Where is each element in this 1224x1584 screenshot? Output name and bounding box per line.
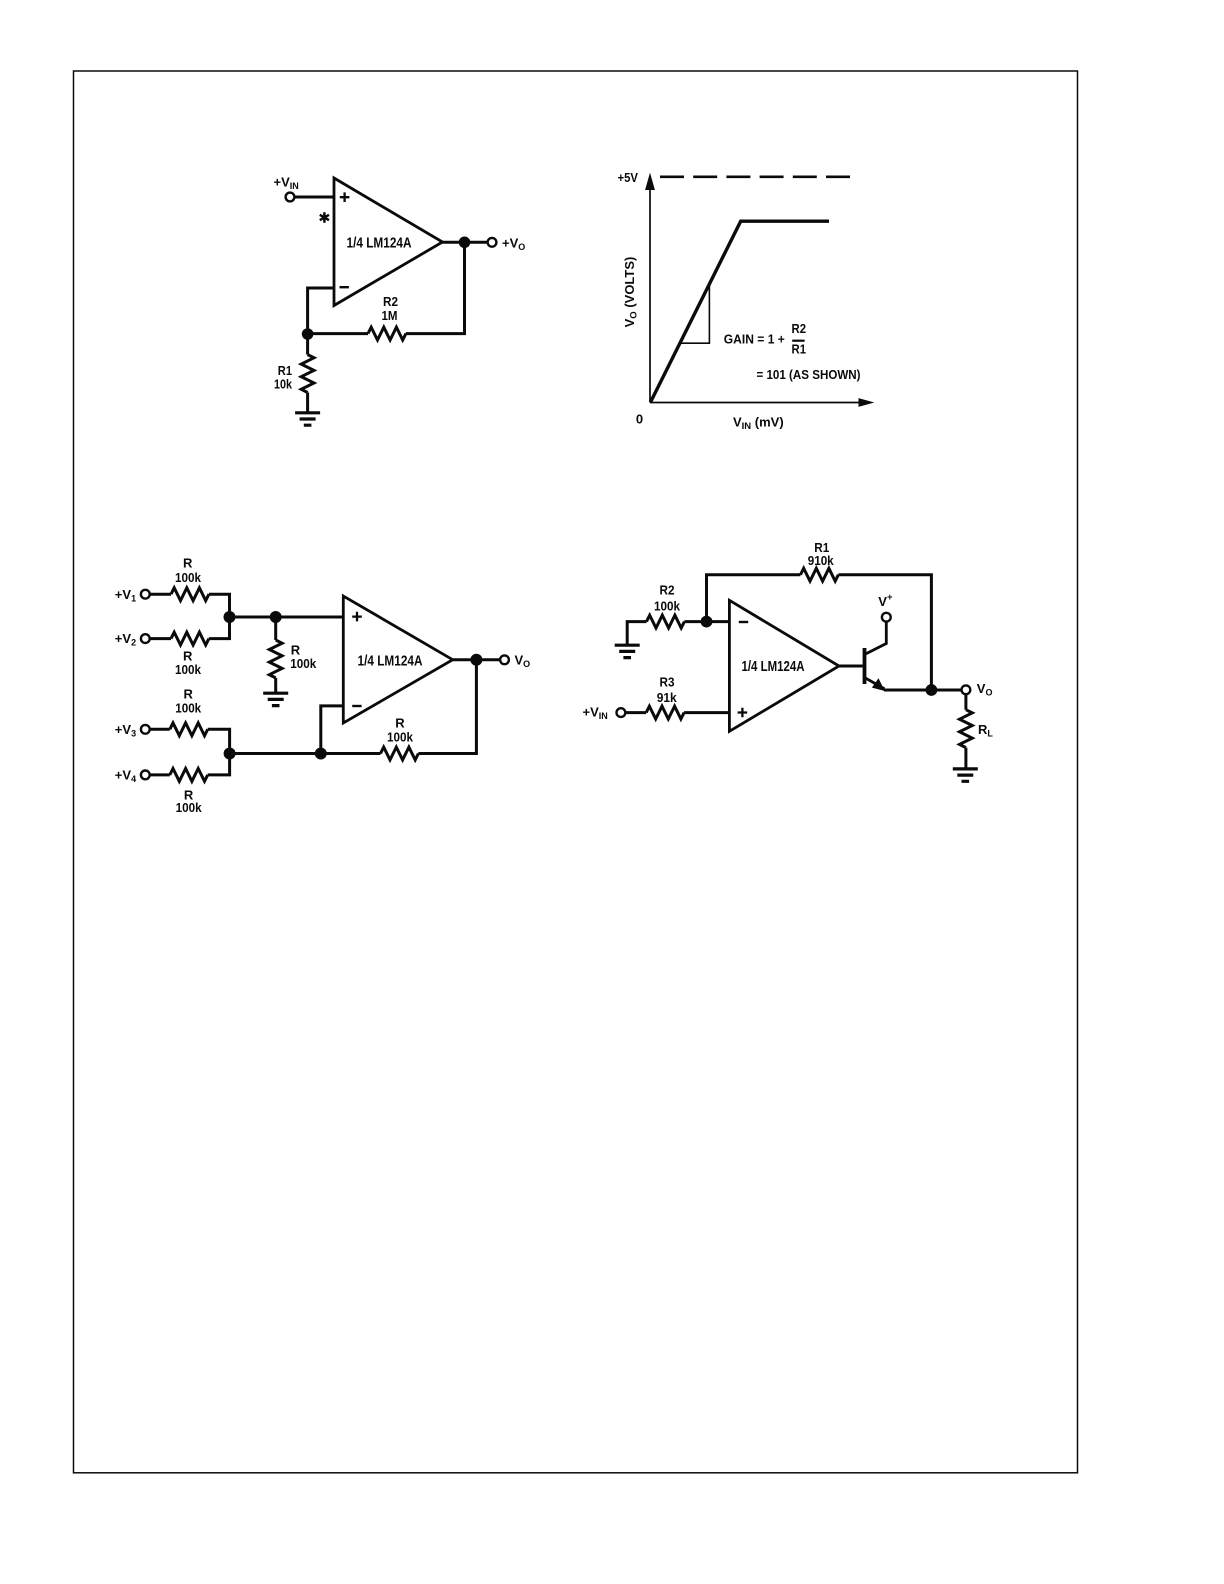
node VO output terminal xyxy=(500,653,530,670)
svg-text:+VO: +VO xyxy=(502,235,525,252)
resistor R 100k (V1) xyxy=(171,556,209,601)
node +VIN input terminal xyxy=(274,175,299,202)
svg-text:91k: 91k xyxy=(657,690,678,705)
resistor R2 100k xyxy=(647,583,685,628)
resistor R3 91k xyxy=(646,675,684,719)
gain formula xyxy=(724,321,861,382)
svg-text:910k: 910k xyxy=(808,553,835,568)
svg-text:+VIN: +VIN xyxy=(274,175,299,192)
wire inverting junction to V3-V4 node xyxy=(230,752,321,755)
asterisk marking on input xyxy=(320,212,329,223)
graph x-axis VIN (mV) xyxy=(650,398,874,407)
svg-text:V+: V+ xyxy=(878,592,893,609)
svg-text:R: R xyxy=(395,716,405,731)
svg-text:= 101 (AS SHOWN): = 101 (AS SHOWN) xyxy=(757,367,861,382)
node inverting junction xyxy=(701,616,713,628)
wire to VO terminal xyxy=(931,689,961,692)
wire V2 resistor up to summing node xyxy=(209,617,230,639)
svg-text:VIN (mV): VIN (mV) xyxy=(733,415,784,433)
resistor R2 1M xyxy=(368,294,406,340)
wire R3 to non-inverting input xyxy=(684,711,729,714)
node +V1 input terminal xyxy=(115,587,150,604)
resistor R1 10k xyxy=(274,334,314,413)
wire +V1 to resistor xyxy=(150,593,171,596)
wire +V4 to resistor xyxy=(150,773,170,776)
node +VO output terminal xyxy=(488,235,526,252)
svg-text:VO: VO xyxy=(515,653,531,670)
wire R2 to ground xyxy=(627,622,646,646)
svg-text:100k: 100k xyxy=(387,729,414,744)
+5V dashed saturation level xyxy=(618,170,853,185)
op-amp U2 1/4 LM124A xyxy=(343,596,452,723)
wire R2 to inverting input xyxy=(684,620,729,623)
node V1-V2 junction xyxy=(224,611,236,623)
resistor R 100k (V2) xyxy=(171,632,209,677)
svg-text:10k: 10k xyxy=(274,376,293,391)
op-amp U1 1/4 LM124A xyxy=(334,178,443,306)
node V+ supply terminal xyxy=(878,592,893,622)
node V3-V4 junction xyxy=(224,748,236,760)
resistor R 100k (V4) xyxy=(170,769,208,815)
svg-text:1M: 1M xyxy=(382,308,398,323)
graph transfer curve xyxy=(651,221,829,402)
svg-text:100k: 100k xyxy=(175,662,202,677)
node inverting junction xyxy=(315,748,327,760)
svg-text:VO (VOLTS): VO (VOLTS) xyxy=(622,257,640,328)
wire feedback left segment xyxy=(707,575,801,622)
node output junction xyxy=(459,237,471,249)
node +V2 input terminal xyxy=(115,631,150,648)
svg-text:100k: 100k xyxy=(175,570,202,585)
wire +V2 to resistor xyxy=(150,637,171,640)
svg-text:100k: 100k xyxy=(654,598,681,613)
node output junction xyxy=(926,684,938,696)
svg-text:100k: 100k xyxy=(290,656,317,671)
wire from inverting input to feedback node xyxy=(308,288,368,334)
wire op-amp output xyxy=(443,241,488,244)
svg-text:R: R xyxy=(291,642,301,657)
wire emitter to output node xyxy=(884,689,931,692)
svg-text:0: 0 xyxy=(636,412,643,427)
node feedback junction xyxy=(302,328,314,340)
wire feedback right segment xyxy=(838,575,931,690)
wire V3 resistor to V3-V4 node xyxy=(208,729,230,753)
svg-text:R2: R2 xyxy=(660,583,675,598)
resistor R1 910k feedback xyxy=(801,540,839,581)
svg-text:R2: R2 xyxy=(383,294,398,309)
svg-text:1/4 LM124A: 1/4 LM124A xyxy=(347,236,412,252)
op-amp U3 1/4 LM124A xyxy=(729,600,839,731)
svg-text:R1: R1 xyxy=(792,342,807,357)
node +V3 input terminal xyxy=(115,722,150,739)
svg-text:100k: 100k xyxy=(176,800,203,815)
wire V1 resistor to summing node xyxy=(209,594,230,617)
wire feedback from output down xyxy=(418,660,476,754)
wire feedback resistor to inverting node xyxy=(321,752,381,755)
wire feedback from output down xyxy=(406,242,465,333)
svg-text:RL: RL xyxy=(978,722,993,739)
svg-text:R: R xyxy=(183,556,193,571)
svg-text:100k: 100k xyxy=(175,701,202,716)
svg-text:1/4 LM124A: 1/4 LM124A xyxy=(742,659,805,675)
svg-text:+5V: +5V xyxy=(618,170,639,185)
resistor R 100k to ground xyxy=(269,617,317,693)
node VO output terminal xyxy=(962,681,993,698)
ground below RL xyxy=(953,769,978,781)
svg-text:+V1: +V1 xyxy=(115,587,136,604)
svg-text:VO: VO xyxy=(977,681,993,698)
node +V4 input terminal xyxy=(115,768,150,785)
graph y-axis Vo (VOLTS) xyxy=(622,173,655,403)
node output junction xyxy=(470,654,482,666)
ground below R2 xyxy=(615,645,640,657)
resistor RL load xyxy=(960,694,994,769)
wire +VIN to R3 xyxy=(625,711,646,714)
wire from +VIN to non-inverting input xyxy=(294,196,334,199)
svg-text:+V2: +V2 xyxy=(115,631,136,648)
resistor R 100k feedback xyxy=(381,716,419,760)
wire op-amp output xyxy=(453,658,500,661)
svg-text:+V3: +V3 xyxy=(115,722,136,739)
svg-text:1/4 LM124A: 1/4 LM124A xyxy=(358,653,423,669)
resistor R 100k (V3) xyxy=(170,687,208,736)
node bias junction xyxy=(270,611,282,623)
transistor Q1 NPN xyxy=(865,622,887,691)
wire inverting junction to inverting input xyxy=(321,706,344,754)
ground below bias resistor xyxy=(263,693,288,705)
svg-text:+V4: +V4 xyxy=(115,768,136,785)
wire op-amp output to transistor base xyxy=(839,665,863,668)
svg-text:R3: R3 xyxy=(660,675,675,690)
ground below R1 xyxy=(295,413,320,425)
svg-text:+VIN: +VIN xyxy=(583,705,608,722)
svg-text:GAIN = 1 +: GAIN = 1 + xyxy=(724,332,785,347)
wire +V3 to resistor xyxy=(150,728,170,731)
node +VIN input terminal xyxy=(583,705,626,722)
wire V4 resistor up to V3-V4 node xyxy=(208,754,230,775)
svg-text:R: R xyxy=(184,687,194,702)
wire summing node to non-inverting input xyxy=(230,616,344,619)
svg-text:R2: R2 xyxy=(792,321,807,336)
gain slope indicator triangle xyxy=(680,285,709,343)
